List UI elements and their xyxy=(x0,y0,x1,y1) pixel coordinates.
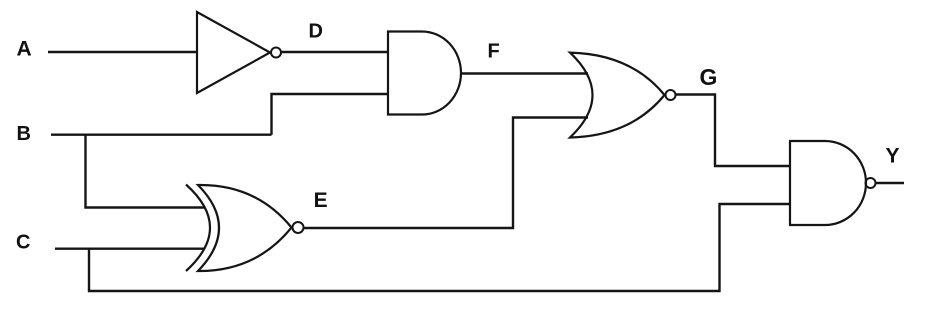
svg-text:G: G xyxy=(700,64,718,90)
inverter output bubble xyxy=(271,48,281,58)
wire B horizontal run xyxy=(51,133,272,135)
wire A to inverter input xyxy=(48,51,197,53)
NAND output bubble xyxy=(866,178,876,188)
XNOR extra input arc xyxy=(186,185,210,272)
svg-text:A: A xyxy=(17,38,32,61)
wire F: AND output to NOR input 1 xyxy=(460,72,588,74)
svg-text:C: C xyxy=(16,232,30,254)
NAND gate xyxy=(790,141,866,225)
XNOR output bubble xyxy=(293,222,304,233)
wire D: inverter output to AND input 1 xyxy=(281,51,388,53)
wire E: XNOR output to NOR input 2 xyxy=(304,118,588,229)
wire Y output xyxy=(876,182,904,184)
svg-text:F: F xyxy=(488,41,500,63)
wire B riser to AND input 2 xyxy=(272,94,389,135)
svg-text:E: E xyxy=(314,189,328,212)
svg-text:Y: Y xyxy=(886,145,900,168)
wire C to XNOR input 2 xyxy=(55,247,205,249)
wire G: NOR output to NAND input 1 xyxy=(676,95,790,167)
NOR gate body xyxy=(570,53,665,138)
XNOR gate body xyxy=(198,185,292,271)
wire B branch down to XNOR input 1 xyxy=(86,135,206,208)
NOT gate (inverter) xyxy=(197,12,270,93)
AND gate xyxy=(388,32,461,115)
NOR output bubble xyxy=(666,90,676,100)
svg-text:D: D xyxy=(309,20,323,42)
svg-text:B: B xyxy=(17,123,31,145)
wire C branch down to bottom run xyxy=(89,204,790,291)
